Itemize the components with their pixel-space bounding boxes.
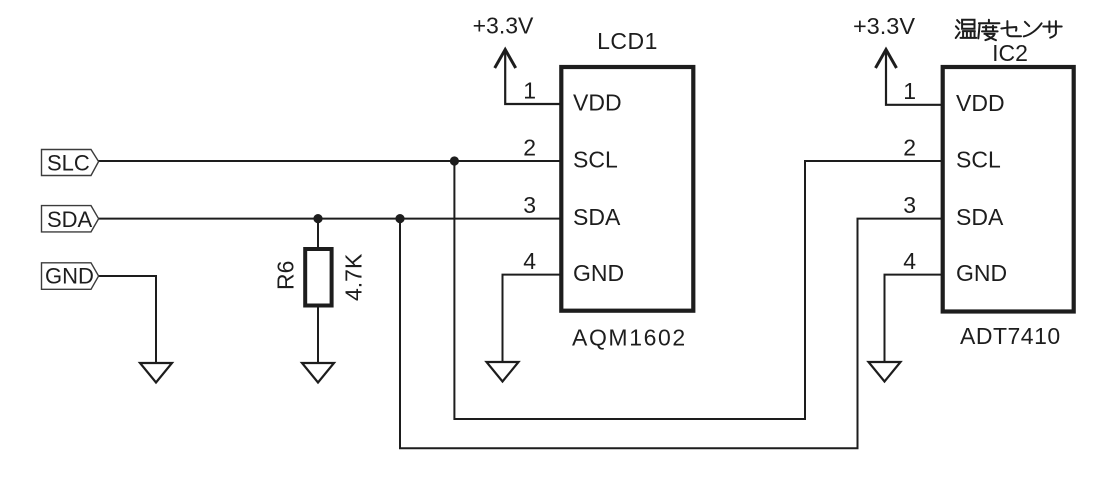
wire IC2 pin1 (power to VDD) (886, 49, 943, 105)
svg-text:VDD: VDD (956, 90, 1005, 116)
svg-text:GND: GND (956, 260, 1007, 286)
wire GND tag to ground (98, 276, 156, 364)
glyph セ (1001, 21, 1021, 36)
svg-text:LCD1: LCD1 (597, 28, 658, 54)
wire SDA route (junction down, across bottom, up to IC2 pin3) (400, 219, 941, 449)
net tag GND (42, 263, 99, 290)
wire LCD1 pin1 (power to VDD) (505, 49, 561, 104)
IC box LCD1 (561, 67, 693, 311)
svg-text:IC2: IC2 (992, 40, 1028, 66)
junction dot SDA at R6 (313, 214, 322, 223)
svg-text:ADT7410: ADT7410 (960, 323, 1061, 349)
power symbol +3.3V left arrow (495, 50, 516, 69)
net tag SLC (42, 150, 99, 176)
svg-text:SCL: SCL (956, 147, 1001, 173)
resistor R6 (305, 249, 331, 306)
wire IC2 pin4 (GND to ground) (885, 275, 944, 363)
svg-text:SDA: SDA (956, 204, 1004, 230)
ground symbol (GND tag) (140, 363, 172, 383)
svg-text:1: 1 (903, 78, 916, 104)
glyph ン (1024, 22, 1042, 37)
wire SDA main (SDA tag to LCD1 pin3) (98, 218, 561, 220)
wire SCL route (junction down, across bottom, up to IC2 pin2) (454, 161, 941, 419)
title 温度センサ (temperature sensor, drawn as vector glyphs) (956, 20, 1062, 41)
glyph 温 (956, 20, 977, 38)
wire SCL main (SLC tag to LCD1 pin2) (98, 160, 561, 162)
junction dot SCL (450, 156, 459, 165)
wire LCD1 pin4 (GND to ground) (503, 275, 562, 363)
svg-text:SDA: SDA (47, 207, 93, 232)
svg-text:2: 2 (903, 135, 916, 161)
junction dot SDA route (395, 214, 404, 223)
svg-text:SLC: SLC (47, 151, 90, 176)
ground symbol (R6) (302, 363, 334, 383)
svg-text:VDD: VDD (573, 90, 622, 116)
glyph サ (1043, 21, 1061, 38)
svg-text:+3.3V: +3.3V (853, 13, 915, 39)
svg-text:GND: GND (573, 260, 624, 286)
net tag SDA (42, 206, 99, 232)
ground symbol (IC2 pin4) (869, 362, 901, 382)
svg-text:R6: R6 (273, 261, 299, 290)
svg-text:+3.3V: +3.3V (473, 13, 534, 39)
svg-text:3: 3 (903, 192, 916, 218)
svg-text:3: 3 (523, 192, 536, 218)
svg-text:4: 4 (523, 248, 536, 274)
svg-text:2: 2 (523, 135, 536, 161)
wire R6 top (SDA junction to resistor) (317, 219, 319, 250)
svg-text:SCL: SCL (573, 147, 618, 173)
power symbol +3.3V right arrow (876, 50, 897, 69)
glyph 度 (978, 20, 999, 41)
svg-text:AQM1602: AQM1602 (572, 325, 687, 351)
ground symbol (LCD1 pin4) (487, 362, 519, 382)
wire R6 bottom (resistor to ground) (317, 306, 319, 364)
svg-text:SDA: SDA (573, 204, 621, 230)
IC box IC2 (943, 67, 1074, 312)
svg-text:4: 4 (903, 248, 916, 274)
svg-text:1: 1 (523, 78, 536, 104)
svg-text:GND: GND (45, 264, 94, 289)
svg-text:4.7K: 4.7K (341, 253, 367, 301)
